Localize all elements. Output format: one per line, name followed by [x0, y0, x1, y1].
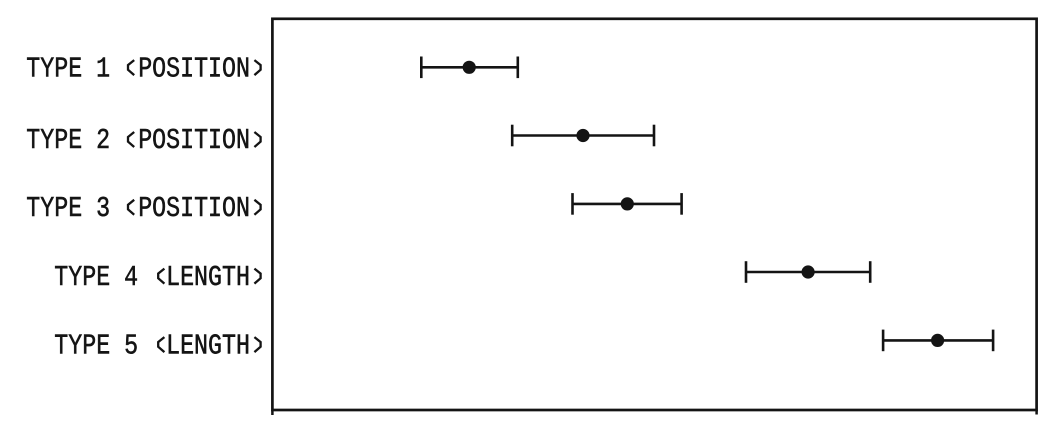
svg-text:TYPE 2POSITION: TYPE 2POSITION — [26, 124, 250, 157]
error bar 5 right cap — [992, 330, 995, 352]
svg-text:TYPE 3POSITION: TYPE 3POSITION — [26, 192, 250, 225]
label TYPE 1 (POSITION) — [26, 52, 250, 85]
label 4 right angle paren — [254, 269, 260, 284]
label TYPE 2 (POSITION) — [26, 124, 250, 157]
label 4 left angle paren — [158, 269, 164, 284]
error bar 2 line — [512, 134, 654, 137]
frame overshoot bottom-right — [1035, 410, 1038, 415]
label TYPE 4 (LENGTH) — [54, 261, 250, 294]
label 1 left angle paren — [128, 60, 134, 75]
error bar 3 line — [573, 203, 682, 206]
frame overshoot bottom-left — [271, 410, 274, 415]
label 2 left angle paren — [128, 132, 134, 147]
plot frame — [272, 19, 1036, 410]
error bar 2 left cap — [511, 125, 514, 147]
error bar 1 right cap — [516, 57, 519, 79]
data dot 5 — [931, 334, 944, 347]
label 2 right angle paren — [254, 132, 260, 147]
error bar 1 left cap — [420, 57, 423, 79]
label 3 left angle paren — [128, 200, 134, 215]
svg-text:TYPE 1POSITION: TYPE 1POSITION — [26, 52, 250, 85]
label 1 right angle paren — [254, 60, 260, 75]
svg-text:TYPE 5LENGTH: TYPE 5LENGTH — [54, 329, 250, 362]
error bar 1 line — [421, 66, 518, 69]
label TYPE 5 (LENGTH) — [54, 329, 250, 362]
data dot 2 — [576, 129, 589, 142]
label TYPE 3 (POSITION) — [26, 192, 250, 225]
error bar 2 right cap — [653, 125, 656, 147]
error bar 4 left cap — [745, 261, 748, 283]
error bar 5 left cap — [882, 330, 885, 352]
data dot 3 — [621, 197, 634, 210]
data dot 1 — [463, 61, 476, 74]
label 5 right angle paren — [254, 337, 260, 352]
error bar 3 right cap — [680, 193, 683, 215]
error bar 5 line — [883, 339, 993, 342]
label 5 left angle paren — [158, 337, 164, 352]
svg-text:TYPE 4LENGTH: TYPE 4LENGTH — [54, 261, 250, 294]
error bar 4 right cap — [869, 261, 872, 283]
label 3 right angle paren — [254, 200, 260, 215]
error bar 4 line — [746, 271, 870, 274]
data dot 4 — [802, 265, 815, 278]
error bar 3 left cap — [571, 193, 574, 215]
